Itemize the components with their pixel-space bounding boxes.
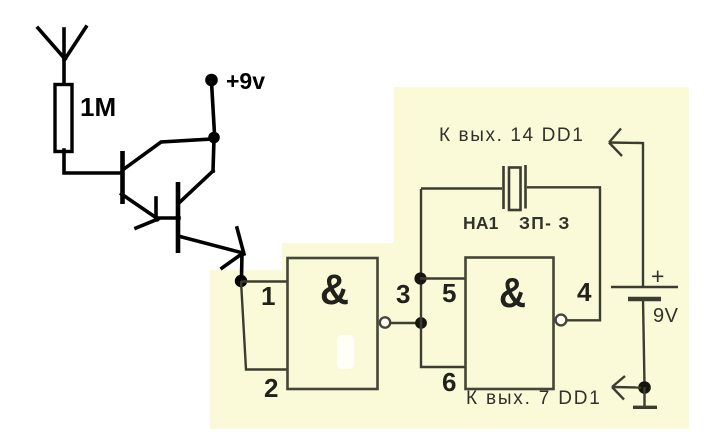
- svg-text:+9v: +9v: [226, 68, 265, 94]
- junction node dot: [208, 132, 220, 144]
- svg-text:1M: 1M: [80, 92, 116, 122]
- wire node to pin5: [420, 277, 466, 279]
- transistor Q1 base bar: [120, 151, 125, 204]
- wire node down to pin2: [241, 281, 288, 370]
- transistor Q2 emitter with arrow: [178, 228, 244, 268]
- transistor Q2 collector: [180, 171, 213, 202]
- svg-text:НА1: НА1: [463, 213, 499, 233]
- svg-text:ЗП- З: ЗП- З: [519, 213, 571, 233]
- wire crystal right: [527, 186, 601, 188]
- wire battery to ground node: [643, 299, 645, 385]
- wire junction down: [213, 139, 214, 171]
- gate DD1.2 output bubble: [556, 315, 567, 326]
- ground symbol: [643, 387, 645, 407]
- node dot output: [415, 317, 427, 329]
- arrow to pin14 supply: [609, 129, 643, 288]
- resistor R1: [55, 85, 72, 152]
- node dot pin5 branch: [414, 272, 426, 284]
- svg-text:&: &: [499, 269, 526, 316]
- svg-text:1: 1: [261, 281, 275, 311]
- highlight region middle block: [282, 243, 396, 429]
- svg-text:4: 4: [577, 277, 592, 307]
- svg-text:9V: 9V: [653, 305, 679, 327]
- wire arrow to input node: [240, 253, 244, 278]
- wire bubble to crystal branch: [567, 187, 600, 320]
- power node +9v dot: [205, 74, 218, 87]
- svg-text:3: 3: [396, 279, 410, 309]
- arrow to pin7 ground: [612, 376, 641, 400]
- wire crystal left: [421, 187, 502, 189]
- battery GB1 plates: [611, 286, 678, 289]
- input node dot: [235, 275, 247, 287]
- highlight region left block: [210, 270, 282, 429]
- piezo HA1 crystal symbol: [504, 165, 526, 210]
- svg-text:6: 6: [442, 367, 456, 397]
- transistor Q2 base bar: [176, 182, 181, 253]
- wire +9v to junction: [212, 82, 215, 134]
- svg-text:&: &: [320, 266, 349, 314]
- transistor Q1 emitter with arrow: [122, 194, 159, 228]
- wire bubble to node: [390, 322, 421, 324]
- antenna WA1: [38, 27, 86, 85]
- gate DD1.1 box: [288, 258, 378, 389]
- svg-text:+: +: [651, 263, 664, 289]
- svg-text:5: 5: [442, 278, 456, 308]
- svg-text:К вых. 7 DD1: К вых. 7 DD1: [466, 388, 602, 409]
- svg-text:К вых. 14 DD1: К вых. 14 DD1: [439, 125, 584, 146]
- wire resistor to base: [64, 150, 122, 173]
- svg-text:2: 2: [264, 373, 278, 403]
- wire Q1 emitter to Q2 base: [158, 216, 179, 220]
- gate DD1.2 box: [466, 258, 554, 390]
- ground node dot: [638, 381, 651, 394]
- vertical wire crystal-left branch: [421, 189, 466, 367]
- white patch inside gate: [337, 335, 354, 369]
- gate DD1.1 output bubble: [380, 317, 390, 327]
- transistor Q1 collector: [124, 139, 211, 169]
- wire node to pin1: [241, 280, 288, 282]
- highlight region right block: [394, 87, 689, 429]
